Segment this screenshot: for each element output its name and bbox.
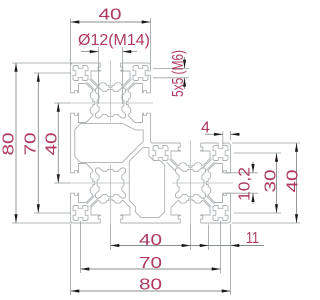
dimension 4 extension lines — [222, 131, 224, 144]
centre bore boss B2 — [172, 165, 209, 202]
dimension 70 bottom — [81, 268, 221, 270]
slot A2 left face — [68, 164, 95, 203]
svg-text:80: 80 — [139, 277, 162, 294]
dimension 5 line — [184, 57, 186, 68]
centre bore boss A1 (Ø12/M14) — [92, 85, 129, 122]
corner screw channel cube A2 bottom-left — [73, 206, 88, 221]
dimension 10.2 line — [252, 162, 254, 173]
corner screw channel cube B2 top-right — [213, 146, 228, 161]
corner screw channel cube A1 top-left — [73, 66, 88, 81]
slot B2 top cut face — [171, 141, 210, 168]
dimension 80 bottom extension lines — [70, 225, 72, 296]
slot A1 left face — [68, 84, 95, 123]
dimension 4 line — [205, 133, 223, 135]
web B2 top-left cube to boss — [167, 162, 176, 171]
web A1 top-right cube to boss — [123, 79, 132, 88]
dimension 10.2 extension lines — [224, 172, 258, 174]
dimension 40 bottom extension lines — [110, 225, 112, 251]
svg-text:4: 4 — [201, 120, 210, 137]
svg-text:70: 70 — [23, 132, 40, 155]
centre bore boss A2 — [92, 165, 129, 202]
svg-text:10,2: 10,2 — [237, 167, 254, 201]
internal cavity between A2 and B2 — [129, 147, 164, 217]
profile outer outline — [71, 63, 231, 223]
web B2 top-right cube to boss — [203, 159, 212, 168]
corner screw channel cube A1 top-right — [133, 66, 148, 81]
dimension Ø12 line — [81, 51, 99, 53]
dimension 40 left extension lines — [54, 102, 70, 104]
dimension 40 top — [71, 21, 151, 23]
slot A1 top face — [91, 61, 130, 88]
corner screw channel cube B2 top-left — [153, 146, 168, 161]
svg-text:40: 40 — [44, 132, 61, 155]
dimension 11 line — [191, 245, 265, 247]
corner screw channel cube B2 bottom-right — [213, 206, 228, 221]
svg-text:70: 70 — [139, 255, 162, 272]
dimension 40 right line — [296, 143, 298, 223]
M6 groove 5x5 mouth on A1 right cut face — [148, 71, 151, 75]
dimension 70 left — [37, 73, 39, 213]
internal cavity between A1 and A2 — [75, 124, 143, 163]
web B2 bottom-right cube to boss — [206, 195, 215, 204]
slot B2 bottom face — [171, 199, 210, 226]
dimension 30 extension lines — [234, 152, 281, 154]
dimension 40 right extension lines — [232, 142, 300, 144]
dimension Ø12 extension lines — [98, 47, 100, 104]
dimension 40 left — [57, 103, 59, 183]
dimension 70 bottom extension lines — [80, 221, 82, 273]
svg-text:80: 80 — [1, 132, 18, 155]
dimension 30 line — [276, 153, 278, 213]
svg-text:40: 40 — [285, 169, 301, 192]
dimension 80 left — [15, 63, 17, 223]
svg-text:40: 40 — [139, 232, 162, 249]
dimension 5x5 extension lines — [153, 67, 189, 69]
svg-text:30: 30 — [263, 169, 280, 192]
slot B2 right face — [206, 164, 233, 203]
svg-text:11: 11 — [246, 230, 259, 247]
web A2 bottom-left cube to boss — [89, 198, 98, 207]
dimension 11 extension line — [208, 225, 210, 251]
M6 groove 5x5 mouth on B2 top cut face — [218, 143, 223, 146]
dimension 80 left extension lines — [12, 62, 72, 64]
slot A1 right cut face — [126, 84, 153, 123]
dimension 80 bottom — [71, 290, 231, 292]
svg-text:Ø12(M14): Ø12(M14) — [78, 32, 150, 49]
dimension 40 bottom — [111, 245, 191, 247]
dimension 70 left extension lines — [34, 72, 71, 74]
dimension 40 top extension lines — [70, 18, 72, 65]
web A1 top-left cube to boss — [87, 82, 96, 91]
slot A2 bottom face — [91, 199, 130, 226]
svg-text:5x5 (M6): 5x5 (M6) — [170, 50, 187, 97]
svg-text:40: 40 — [99, 7, 122, 24]
